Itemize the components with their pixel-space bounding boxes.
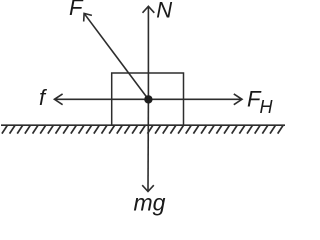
svg-text:mg: mg <box>134 189 166 215</box>
ground hatching <box>2 125 283 133</box>
force arrow F_H: open arrowhead <box>234 94 242 105</box>
force arrow f: open arrowhead <box>54 94 62 105</box>
force arrow mg: open arrowhead <box>142 185 154 191</box>
ground surface line <box>1 124 285 126</box>
force arrow mg (weight, down): shaft <box>147 99 149 190</box>
center point (particle) <box>144 95 152 103</box>
force arrow N: open arrowhead <box>143 6 155 13</box>
force arrow F (applied force, up-left diagonal): shaft <box>85 14 149 99</box>
block on surface <box>112 73 184 125</box>
force arrow f (friction, left): shaft <box>55 98 148 100</box>
svg-text:F: F <box>69 0 84 20</box>
svg-text:f: f <box>39 85 48 110</box>
force arrow F_H (horizontal applied force, right): shaft <box>148 98 241 100</box>
svg-text:N: N <box>156 0 172 23</box>
svg-text:H: H <box>260 97 274 117</box>
force arrow N (normal force, up): shaft <box>147 7 149 99</box>
force arrow F: open arrowhead <box>84 13 92 21</box>
